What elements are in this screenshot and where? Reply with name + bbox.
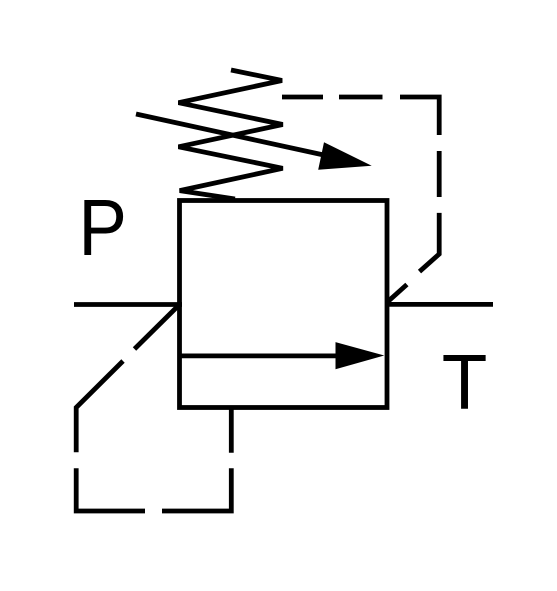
svg-text:T: T [442, 339, 488, 426]
T port line (right) [385, 302, 493, 307]
adjustment arrow head [318, 142, 372, 170]
valve body envelope (square) [180, 201, 388, 408]
pilot line top: horizontal dash 1 [282, 95, 323, 100]
adjustment arrow shaft through spring [136, 114, 326, 156]
pilot line top: horizontal dash 2 [339, 95, 383, 100]
drain line: bottom-left corner dash [76, 468, 145, 511]
svg-text:P: P [78, 184, 127, 273]
drain line: bottom-right corner dash [162, 468, 231, 511]
flow path arrow shaft inside valve [180, 353, 341, 358]
drain line: diagonal dash from P port junction [135, 306, 179, 349]
pilot line top: corner dash (horizontal to vertical) [400, 97, 439, 135]
flow path arrow head [336, 342, 385, 369]
drain line: vertical dash to valve bottom [229, 410, 234, 453]
spring (zigzag) on top of valve [179, 70, 283, 199]
pilot line right: vertical dash [437, 151, 442, 197]
P port line (left) [74, 302, 182, 307]
pilot line right: vertical-to-diagonal bend dash [420, 213, 440, 272]
drain line: diagonal-to-vertical bend dash [76, 361, 123, 452]
pilot line right: diagonal dash to T port junction [387, 285, 407, 303]
